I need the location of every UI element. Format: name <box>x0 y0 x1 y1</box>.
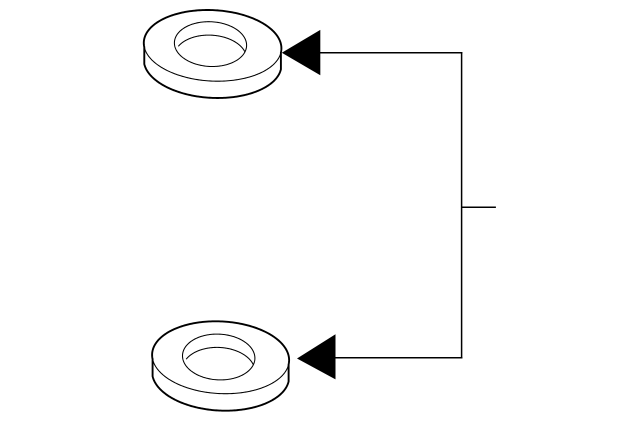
washer top (W1): outer silhouette (top face outline, sides, bottom edge) <box>144 10 282 98</box>
callout tick (part label leader) <box>462 206 496 208</box>
washer bottom (W2): hole (inner ellipse) <box>183 334 255 380</box>
washer top (W1): lower rim of top face <box>144 47 281 81</box>
leader wire: top horizontal <box>320 52 462 54</box>
arrowhead A1 (points to top washer) <box>282 30 321 75</box>
washer bottom (W2): lower rim of top face <box>153 359 289 393</box>
washer bottom (W2): bottom edge of hole bore <box>186 347 253 364</box>
washer top (W1): bottom edge of hole bore <box>178 35 244 52</box>
leader wire: bottom horizontal <box>335 357 462 359</box>
leader wire: vertical bus <box>461 52 463 358</box>
washer top (W1): hole (inner ellipse) <box>174 22 246 67</box>
arrowhead A2 (points to bottom washer) <box>297 334 336 379</box>
washer bottom (W2): outer silhouette (top face outline, sides, bottom edge) <box>152 321 289 410</box>
